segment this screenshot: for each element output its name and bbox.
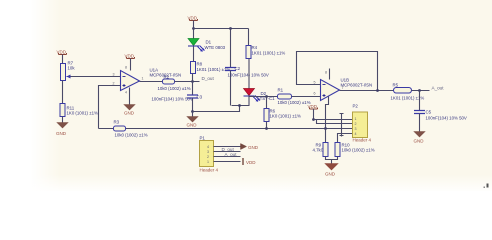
svg-text:4: 4	[125, 91, 127, 95]
svg-text:P1: P1	[200, 136, 206, 141]
resistor R5	[391, 83, 425, 101]
svg-text:GND: GND	[187, 123, 198, 128]
header P1	[200, 136, 219, 173]
node VDD rail	[192, 27, 195, 30]
node A_out	[418, 86, 444, 92]
svg-text:1K0 (1001) ±1%: 1K0 (1001) ±1%	[270, 114, 301, 119]
svg-text:2: 2	[113, 82, 115, 86]
svg-text:A_out: A_out	[225, 152, 238, 157]
svg-text:10k0 (1002) ±1%: 10k0 (1002) ±1%	[115, 133, 148, 138]
VDD symbol (above U1A)	[125, 54, 135, 71]
capacitor C3	[152, 82, 203, 112]
resistor R1	[278, 88, 311, 106]
wire P1 pin1 to VDD port	[214, 161, 241, 163]
wire R5 to A_out	[412, 90, 430, 92]
svg-text:1: 1	[207, 160, 209, 164]
wire R7 bottom to R11	[62, 81, 64, 104]
svg-text:6: 6	[314, 92, 316, 96]
svg-text:4.7k0: 4.7k0	[313, 148, 324, 153]
wire VDD to P2 pin1	[314, 119, 353, 121]
svg-text:1: 1	[142, 77, 144, 81]
svg-text:GND: GND	[414, 139, 425, 144]
svg-text:R8: R8	[197, 62, 203, 67]
svg-text:100nF(104) 10% 50V: 100nF(104) 10% 50V	[228, 73, 269, 78]
svg-text:8: 8	[125, 66, 127, 70]
svg-text:VDD: VDD	[246, 160, 256, 165]
svg-text:A_out: A_out	[432, 86, 445, 91]
svg-text:GND: GND	[124, 111, 135, 116]
svg-text:R4: R4	[252, 45, 258, 50]
node R6 top	[265, 95, 268, 98]
wire D1 to R8	[193, 47, 195, 62]
sheet background	[0, 0, 492, 191]
capacitor C4 vertical jumper	[340, 113, 344, 137]
capacitor C2	[225, 29, 269, 106]
svg-text:10k: 10k	[68, 66, 76, 71]
U1B power stub	[329, 69, 331, 80]
node R6 rail	[265, 127, 268, 130]
LED D2 (red)	[244, 89, 276, 102]
resistor R3	[114, 120, 148, 138]
svg-text:P2: P2	[353, 104, 359, 109]
potentiometer R7	[61, 61, 76, 81]
ground (below R11)	[56, 123, 68, 137]
svg-text:R5: R5	[393, 83, 399, 88]
node C3/GND	[191, 110, 194, 113]
svg-text:Header 4: Header 4	[353, 138, 372, 143]
VDD symbol (above R7)	[57, 50, 67, 64]
wire R4 top	[248, 29, 250, 46]
LED D1 (green)	[188, 29, 226, 52]
svg-text:R2: R2	[164, 75, 170, 80]
node feedback/output	[376, 89, 379, 92]
svg-text:1K0 (1001) ±1%: 1K0 (1001) ±1%	[67, 111, 98, 116]
svg-text:WTE 0803: WTE 0803	[205, 45, 226, 50]
wire P2 pin4 to R10	[338, 134, 353, 143]
svg-text:C3: C3	[197, 95, 203, 100]
svg-text:8: 8	[325, 71, 327, 75]
svg-text:D1: D1	[206, 40, 212, 45]
port VDD	[243, 158, 256, 165]
ground (below C3)	[187, 112, 199, 128]
svg-text:4: 4	[355, 132, 357, 136]
ground (below U1A pin4)	[124, 88, 135, 116]
resistor R2	[158, 75, 191, 92]
resistor R6	[264, 97, 301, 122]
svg-text:C2: C2	[235, 66, 241, 71]
node VDD P2	[312, 118, 315, 121]
wire P1 pin4 to GND port	[214, 146, 241, 148]
svg-text:GND: GND	[56, 131, 67, 136]
wire D2 cathode down	[248, 97, 250, 106]
svg-text:2: 2	[207, 155, 209, 159]
wire P1 pin3 D_out	[214, 147, 241, 152]
svg-text:3: 3	[207, 150, 209, 154]
svg-text:3: 3	[113, 73, 115, 77]
wire R9 top from rail	[325, 129, 327, 143]
wire R2 to D_out node	[175, 81, 200, 83]
wire R8 to D_out node	[192, 74, 194, 82]
node y105	[238, 104, 241, 107]
node C2 top	[229, 27, 232, 30]
node D_out	[191, 76, 214, 83]
resistor R11	[60, 104, 98, 117]
svg-text:GND: GND	[325, 172, 336, 177]
header P2	[353, 104, 372, 143]
wire VDD rail to R4	[194, 28, 249, 30]
wire P1 pin2 A_out	[214, 152, 241, 157]
svg-text:5: 5	[314, 81, 316, 85]
node rail P2 branch	[324, 127, 327, 130]
svg-text:1: 1	[355, 117, 357, 121]
resistor R10	[335, 143, 375, 157]
wire VDD to P2 pin2	[317, 120, 353, 124]
svg-text:R3: R3	[114, 120, 120, 125]
wire U1A output	[140, 81, 163, 83]
resistor R9	[313, 143, 329, 157]
svg-text:D_out: D_out	[202, 76, 215, 81]
svg-text:2: 2	[355, 122, 357, 126]
wire R9/R10 bottoms join	[326, 157, 338, 164]
wire GND node to D2 bottom	[193, 106, 250, 112]
svg-text:R1: R1	[278, 88, 284, 93]
wire U1A pin2 from feedback node	[99, 86, 121, 129]
svg-text:10k0 (1002) ±1%: 10k0 (1002) ±1%	[342, 148, 375, 153]
wire R11 to ground	[62, 117, 64, 123]
capacitor C5	[414, 91, 467, 132]
op-amp U1A	[113, 66, 182, 95]
wire U1B output	[340, 90, 394, 92]
VDD symbol (above P2)	[308, 104, 318, 120]
U1B pin4 stub to rail	[326, 97, 329, 129]
resistor R8	[191, 62, 231, 74]
svg-text:4: 4	[207, 145, 209, 149]
port GND	[241, 144, 259, 151]
bottom-right artifact	[484, 184, 489, 189]
resistor R4	[246, 45, 285, 59]
svg-text:10k0 (1002) ±1%: 10k0 (1002) ±1%	[278, 100, 311, 105]
wire R6 to rail	[266, 122, 268, 129]
svg-text:100nF(104) 10% 50V: 100nF(104) 10% 50V	[152, 97, 193, 102]
svg-text:100nF(104) 10% 50V: 100nF(104) 10% 50V	[426, 116, 467, 121]
wire R7 wiper to U1A +in	[71, 76, 121, 78]
svg-text:3: 3	[355, 127, 357, 131]
svg-text:MCP6002T-I/SN: MCP6002T-I/SN	[341, 83, 373, 88]
VDD symbol (above D1)	[188, 16, 198, 29]
op-amp U1B	[314, 71, 373, 101]
ground (below C5)	[414, 132, 426, 144]
wire R1 to U1B +in	[292, 96, 321, 98]
ground (below R9/R10)	[325, 164, 338, 177]
svg-text:Header 4: Header 4	[200, 168, 219, 173]
feedback wire U1B	[297, 52, 378, 91]
svg-text:1K01 (1001) ±1%: 1K01 (1001) ±1%	[252, 51, 286, 56]
wire R4 to D2	[248, 59, 250, 89]
svg-text:C5: C5	[426, 110, 432, 115]
rail wire bottom: R3 net	[99, 128, 353, 130]
svg-text:GND: GND	[248, 145, 259, 150]
wire D2 node to R1	[249, 96, 278, 98]
svg-text:10k0 (1002) ±1%: 10k0 (1002) ±1%	[158, 86, 191, 91]
